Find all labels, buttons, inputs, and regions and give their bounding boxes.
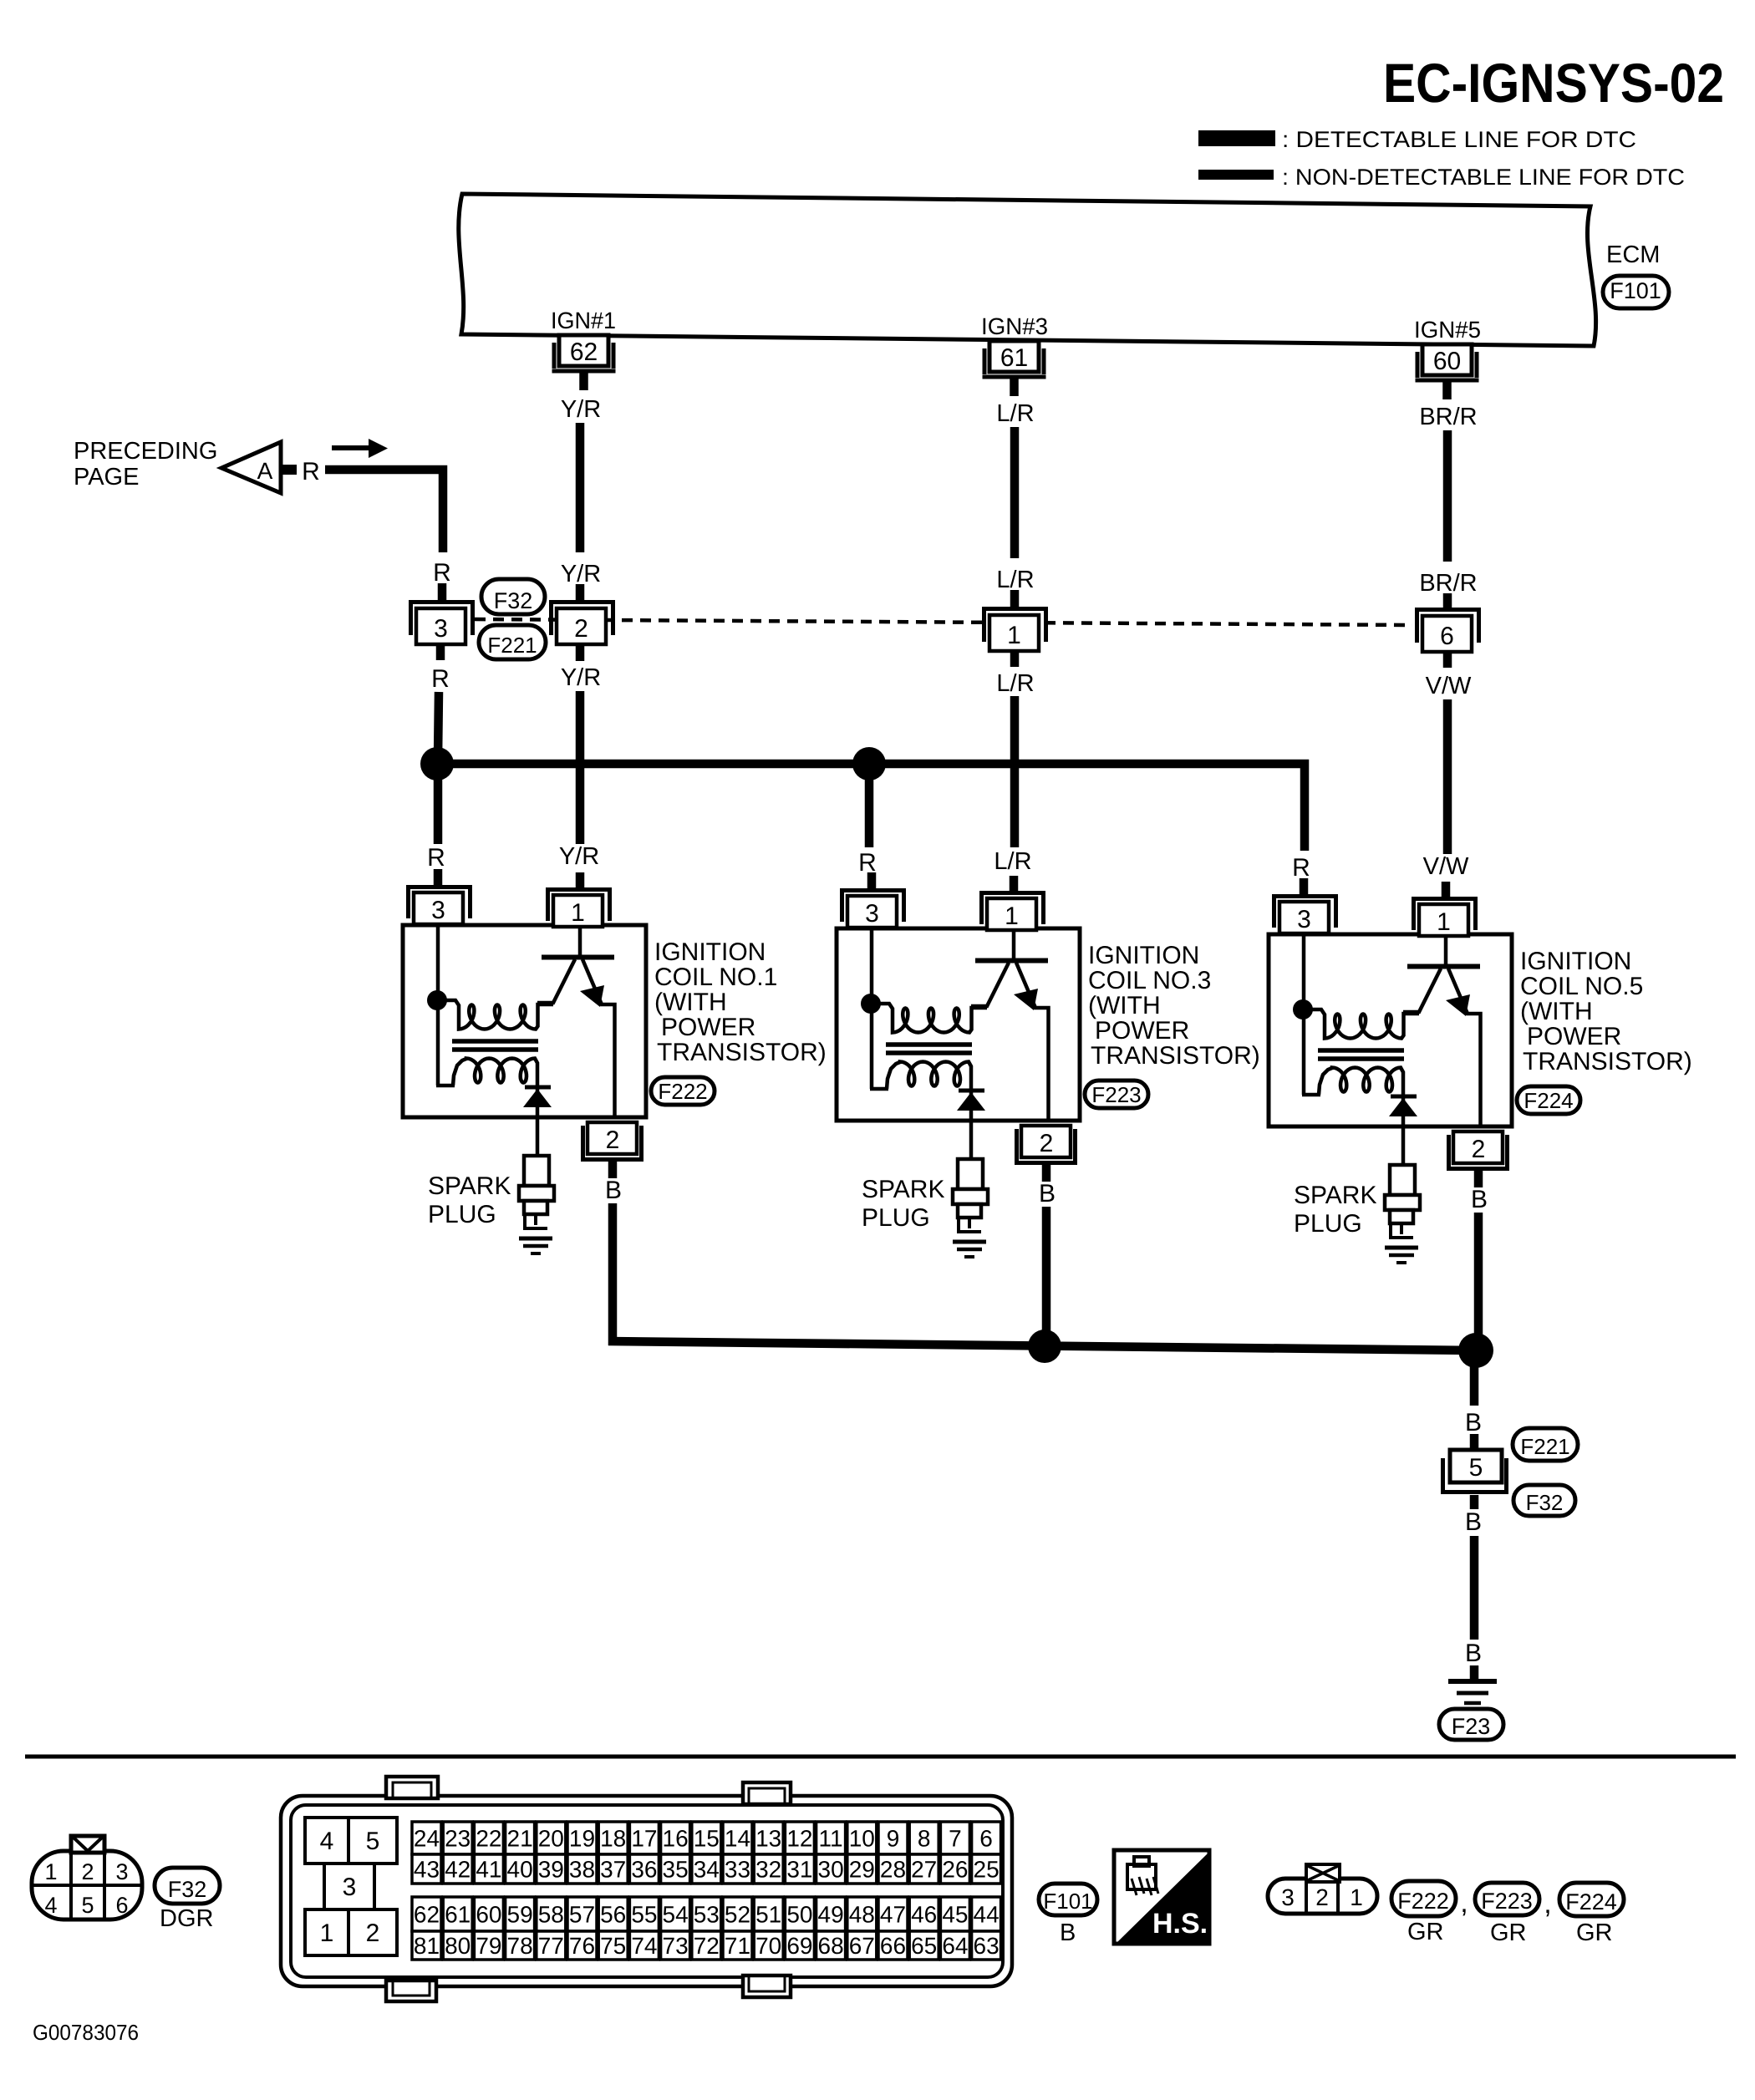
svg-text:2: 2 — [366, 1919, 380, 1947]
wire label Y/R — [561, 396, 601, 423]
Y/R wire ECM pin62 to pin2: upper segment — [576, 423, 585, 552]
svg-text:F32: F32 — [168, 1877, 207, 1902]
ECM connector pin grid row 81-63 — [412, 1931, 1001, 1960]
svg-text:61: 61 — [445, 1902, 471, 1928]
svg-text:IGN#1: IGN#1 — [551, 308, 616, 333]
H.S. harness side icon — [1114, 1850, 1209, 1944]
wire B long segment — [1470, 1536, 1479, 1640]
svg-text:8: 8 — [918, 1826, 931, 1852]
svg-text:R: R — [433, 559, 451, 587]
svg-text:15: 15 — [694, 1826, 720, 1852]
wire R down to junction — [438, 692, 439, 759]
svg-text:F32: F32 — [494, 588, 533, 613]
svg-text:56: 56 — [600, 1902, 626, 1928]
svg-text:47: 47 — [880, 1902, 906, 1928]
color GR 3 — [1576, 1919, 1613, 1946]
wire label R above coil2 pin3 — [858, 849, 877, 877]
ECM pin 60 IGN#5 — [1414, 317, 1481, 399]
svg-text:1: 1 — [320, 1919, 334, 1947]
svg-text:20: 20 — [538, 1826, 564, 1852]
svg-text:10: 10 — [849, 1826, 875, 1852]
svg-text:35: 35 — [663, 1857, 689, 1883]
wire label B — [1465, 1409, 1482, 1436]
svg-text:65: 65 — [911, 1933, 937, 1959]
svg-text:IGN#5: IGN#5 — [1414, 317, 1481, 343]
ECM connector view outline — [281, 1796, 1012, 1986]
svg-text:3: 3 — [115, 1859, 128, 1884]
svg-text:38: 38 — [569, 1857, 595, 1883]
svg-text:51: 51 — [755, 1902, 781, 1928]
svg-text:61: 61 — [1000, 344, 1028, 372]
svg-text:34: 34 — [694, 1857, 720, 1883]
preceding page reference A — [74, 438, 320, 493]
svg-text:52: 52 — [725, 1902, 750, 1928]
svg-text:F101: F101 — [1610, 278, 1661, 303]
svg-text:21: 21 — [507, 1826, 533, 1852]
arrow to right — [332, 439, 388, 458]
wire label L/R below pin1 — [996, 670, 1034, 697]
connector F221 oval — [1513, 1428, 1578, 1461]
svg-text:63: 63 — [974, 1933, 1000, 1959]
connector F221 oval — [479, 625, 546, 659]
svg-text:31: 31 — [786, 1857, 812, 1883]
svg-text:EC-IGNSYS-02: EC-IGNSYS-02 — [1383, 52, 1724, 114]
svg-text:GR: GR — [1490, 1919, 1527, 1946]
legend non-detectable line sample — [1198, 170, 1274, 180]
stub below pin 6 — [1443, 652, 1452, 668]
svg-text:B: B — [1465, 1508, 1482, 1536]
svg-text:BR/R: BR/R — [1419, 570, 1477, 597]
connector F223 label — [1475, 1883, 1539, 1915]
wire label Y/R below pin2 — [561, 664, 601, 691]
connector face 3 2 1 — [1268, 1864, 1377, 1914]
dashed link line between connectors — [475, 619, 1412, 625]
svg-text:B: B — [1465, 1640, 1482, 1667]
connector F32 oval lower — [1513, 1485, 1575, 1516]
wire B coil2 pin2 to bus — [1042, 1207, 1051, 1348]
ground connector F23 oval — [1439, 1709, 1503, 1740]
svg-text:70: 70 — [755, 1933, 781, 1959]
svg-text:2: 2 — [574, 615, 588, 643]
junction dot C — [1028, 1330, 1061, 1363]
wire label V/W below pin6 — [1426, 673, 1472, 699]
svg-text:30: 30 — [818, 1857, 844, 1883]
svg-text:R: R — [427, 844, 445, 872]
svg-text:3: 3 — [434, 615, 448, 643]
svg-text:L/R: L/R — [996, 400, 1034, 427]
svg-text:59: 59 — [507, 1902, 533, 1928]
wire label V/W above coil3 pin1 — [1423, 853, 1469, 880]
svg-text:13: 13 — [755, 1826, 781, 1852]
svg-text:L/R: L/R — [994, 848, 1031, 875]
svg-text:V/W: V/W — [1426, 673, 1472, 699]
legend detectable text — [1282, 127, 1636, 152]
ECM pin 62 IGN#1 — [551, 308, 616, 390]
wire B coil1 pin2 to bus — [608, 1203, 618, 1345]
svg-text:81: 81 — [414, 1933, 440, 1959]
svg-text:F221: F221 — [487, 633, 537, 658]
color DGR — [160, 1905, 213, 1932]
svg-text:26: 26 — [942, 1857, 968, 1883]
svg-text:11: 11 — [819, 1826, 843, 1852]
svg-text:2: 2 — [81, 1859, 94, 1884]
stub above pin 5 — [1470, 1434, 1479, 1451]
connector F32 label — [155, 1868, 220, 1904]
svg-text:19: 19 — [569, 1826, 595, 1852]
svg-text:49: 49 — [818, 1902, 844, 1928]
wire label BR/R — [1419, 404, 1477, 430]
junction dot B — [852, 747, 886, 781]
svg-text:F222: F222 — [1397, 1889, 1449, 1914]
svg-text:COIL NO.1: COIL NO.1 — [654, 964, 777, 991]
connector F221/F32 pin 5 — [1441, 1450, 1508, 1492]
ECM connector pin grid row 62-44 — [412, 1897, 1001, 1931]
svg-text:40: 40 — [507, 1857, 533, 1883]
svg-text:62: 62 — [570, 338, 598, 366]
svg-text:17: 17 — [631, 1826, 657, 1852]
svg-text:23: 23 — [445, 1826, 471, 1852]
stub below pin 2 — [576, 644, 585, 661]
svg-text:72: 72 — [694, 1933, 720, 1959]
svg-text:22: 22 — [476, 1826, 501, 1852]
svg-text:2: 2 — [1315, 1884, 1329, 1910]
wire label L/R above coil2 pin1 — [994, 848, 1031, 875]
ECM connector label F101 — [1603, 276, 1669, 308]
svg-text:5: 5 — [1469, 1454, 1483, 1482]
svg-text:69: 69 — [786, 1933, 812, 1959]
svg-text:28: 28 — [880, 1857, 906, 1883]
wire label BR/R above pin6 — [1419, 570, 1477, 597]
svg-text:24: 24 — [414, 1826, 440, 1852]
stub above pin 3 — [438, 583, 447, 601]
wire R from preceding page — [325, 470, 443, 552]
svg-text:DGR: DGR — [160, 1905, 213, 1932]
svg-text:71: 71 — [725, 1933, 750, 1959]
svg-text:F23: F23 — [1452, 1714, 1491, 1739]
svg-text:6: 6 — [1440, 623, 1454, 650]
svg-text:68: 68 — [818, 1933, 844, 1959]
color GR 1 — [1407, 1919, 1444, 1945]
svg-text:42: 42 — [445, 1857, 471, 1883]
wire V/W down to coil3 pin1 — [1443, 699, 1452, 854]
connector face F32 (6 pin) — [32, 1836, 142, 1919]
svg-text:48: 48 — [849, 1902, 875, 1928]
svg-text:41: 41 — [476, 1857, 501, 1883]
svg-text:F224: F224 — [1524, 1088, 1573, 1113]
comma — [1460, 1887, 1468, 1919]
ECM block — [459, 194, 1596, 346]
svg-text:F222: F222 — [658, 1079, 707, 1104]
svg-text:64: 64 — [942, 1933, 968, 1959]
stub above pin 6 — [1443, 593, 1452, 608]
legend non-detectable text — [1282, 165, 1685, 190]
color GR 2 — [1490, 1919, 1527, 1946]
stub below pin 5 — [1470, 1495, 1479, 1509]
svg-text:37: 37 — [600, 1857, 626, 1883]
stub above pin 1 — [1010, 590, 1020, 608]
svg-text:R: R — [302, 458, 320, 486]
svg-text:PAGE: PAGE — [74, 464, 139, 491]
connector F32/F221 pin 3 — [409, 600, 475, 644]
connector F32/F221 pin 1 — [982, 607, 1048, 651]
svg-text:A: A — [257, 458, 273, 484]
svg-text:F224: F224 — [1565, 1889, 1617, 1914]
svg-text:78: 78 — [507, 1933, 533, 1959]
svg-text:14: 14 — [725, 1826, 750, 1852]
svg-text:75: 75 — [600, 1933, 626, 1959]
wire label B — [1465, 1508, 1482, 1536]
svg-text:50: 50 — [786, 1902, 812, 1928]
ground bus wire B — [608, 1341, 1476, 1350]
connector bottom tab 2 — [743, 1975, 791, 1997]
svg-text:60: 60 — [476, 1902, 501, 1928]
svg-text:: DETECTABLE LINE FOR DTC: : DETECTABLE LINE FOR DTC — [1282, 127, 1636, 152]
svg-text:27: 27 — [911, 1857, 937, 1883]
wire A down to coil1 pin3 — [434, 764, 443, 844]
svg-text:67: 67 — [849, 1933, 875, 1959]
svg-text:BR/R: BR/R — [1419, 404, 1477, 430]
wire L/R down to coil2 pin1 — [1010, 696, 1020, 847]
svg-text:Y/R: Y/R — [559, 843, 599, 870]
wire label R above coil1 pin3 — [427, 844, 445, 872]
svg-text:F221: F221 — [1520, 1434, 1569, 1459]
wire label L/R — [996, 400, 1034, 427]
connector F32/F221 pin 2 — [549, 600, 615, 644]
svg-text:,: , — [1544, 1888, 1551, 1919]
color B — [1060, 1919, 1076, 1946]
svg-text:IGN#3: IGN#3 — [981, 313, 1048, 339]
svg-text:46: 46 — [911, 1902, 937, 1928]
svg-text:6: 6 — [115, 1893, 128, 1918]
svg-text:R: R — [431, 665, 450, 693]
document number — [33, 2020, 139, 2045]
svg-text:53: 53 — [694, 1902, 720, 1928]
comma — [1544, 1888, 1551, 1919]
svg-text:3: 3 — [343, 1874, 357, 1901]
ECM connector pin grid row 43-25 — [412, 1854, 1001, 1884]
connector top tab 1 — [386, 1777, 438, 1798]
connector top tab 2 — [743, 1782, 791, 1804]
svg-text:F32: F32 — [1526, 1490, 1564, 1515]
ignition coil no.5 with power transistor F224 — [1269, 878, 1692, 1263]
svg-text:44: 44 — [974, 1902, 1000, 1928]
wire label Y/R above pin2 — [561, 561, 601, 587]
svg-text:9: 9 — [887, 1826, 900, 1852]
svg-text:33: 33 — [725, 1857, 750, 1883]
stub above pin 2 — [576, 584, 585, 601]
ignition coil no.3 with power transistor F223 — [837, 872, 1260, 1257]
connector bottom tab 1 — [386, 1981, 436, 2001]
svg-text:76: 76 — [569, 1933, 595, 1959]
ECM pin 61 IGN#3 — [981, 313, 1048, 396]
wire label R below pin3 — [431, 665, 450, 693]
svg-text:77: 77 — [538, 1933, 564, 1959]
svg-text:66: 66 — [880, 1933, 906, 1959]
svg-text:F223: F223 — [1091, 1082, 1141, 1107]
svg-text:L/R: L/R — [996, 567, 1034, 593]
connector F222 label — [1391, 1881, 1456, 1916]
svg-text:18: 18 — [600, 1826, 626, 1852]
svg-text:GR: GR — [1576, 1919, 1613, 1946]
svg-text:73: 73 — [663, 1933, 689, 1959]
svg-text:COIL NO.3: COIL NO.3 — [1088, 967, 1211, 994]
svg-text:80: 80 — [445, 1933, 471, 1959]
L/R wire ECM pin61 to pin1: upper segment — [1010, 427, 1020, 558]
svg-text:V/W: V/W — [1423, 853, 1469, 880]
svg-text:57: 57 — [569, 1902, 595, 1928]
ground symbol — [1448, 1681, 1497, 1703]
svg-text:32: 32 — [755, 1857, 781, 1883]
junction dot A — [420, 747, 454, 781]
ignition coil no.1 with power transistor F222 — [403, 869, 827, 1253]
svg-text:F223: F223 — [1481, 1889, 1533, 1914]
bus wire R to all coil pin3 — [437, 764, 1305, 851]
svg-text:55: 55 — [631, 1902, 657, 1928]
svg-text:4: 4 — [44, 1893, 57, 1918]
connector F32 oval — [481, 579, 545, 614]
svg-text:39: 39 — [538, 1857, 564, 1883]
stub below pin 1 — [1010, 651, 1020, 667]
svg-text:3: 3 — [1281, 1884, 1295, 1910]
svg-text:B: B — [1465, 1409, 1482, 1436]
svg-text:5: 5 — [366, 1828, 380, 1855]
wire label B — [1465, 1640, 1482, 1667]
svg-text:H.S.: H.S. — [1152, 1908, 1208, 1940]
svg-text:Y/R: Y/R — [561, 664, 601, 691]
svg-text:54: 54 — [663, 1902, 689, 1928]
wire label L/R above pin1 — [996, 567, 1034, 593]
svg-text:58: 58 — [538, 1902, 564, 1928]
connector F224 label — [1559, 1883, 1624, 1916]
svg-text:4: 4 — [320, 1828, 334, 1855]
svg-text:,: , — [1460, 1887, 1468, 1919]
svg-text:62: 62 — [414, 1902, 440, 1928]
svg-text:29: 29 — [849, 1857, 875, 1883]
wire label R above pin3 — [433, 559, 451, 587]
ECM connector pin grid row 24-6 — [412, 1822, 1001, 1854]
svg-text:16: 16 — [663, 1826, 689, 1852]
connector F101 label — [1039, 1884, 1097, 1915]
svg-text:ECM: ECM — [1606, 242, 1660, 268]
svg-text:7: 7 — [949, 1826, 962, 1852]
svg-text:25: 25 — [974, 1857, 1000, 1883]
stub above ground — [1470, 1665, 1479, 1680]
svg-text:Y/R: Y/R — [561, 396, 601, 423]
svg-text:L/R: L/R — [996, 670, 1034, 697]
svg-text:F101: F101 — [1043, 1889, 1092, 1914]
svg-text:12: 12 — [786, 1826, 812, 1852]
BR/R wire ECM pin60 to pin6: upper segment — [1443, 430, 1452, 562]
legend detectable line sample — [1198, 130, 1275, 146]
svg-text:6: 6 — [979, 1826, 993, 1852]
svg-text:74: 74 — [631, 1933, 657, 1959]
wire B coil3 pin2 to bus — [1474, 1213, 1483, 1352]
svg-text:1: 1 — [1007, 622, 1021, 649]
svg-text:5: 5 — [81, 1893, 94, 1918]
svg-text:B: B — [1060, 1919, 1076, 1946]
svg-text:PRECEDING: PRECEDING — [74, 438, 217, 465]
svg-text:43: 43 — [414, 1857, 440, 1883]
svg-text:45: 45 — [942, 1902, 968, 1928]
svg-text:: NON-DETECTABLE LINE FOR DTC: : NON-DETECTABLE LINE FOR DTC — [1282, 165, 1685, 190]
wire B below junction — [1470, 1360, 1479, 1406]
svg-text:G00783076: G00783076 — [33, 2020, 139, 2045]
wire Y/R down to coil1 pin1 — [576, 691, 585, 844]
stub below pin 3 — [436, 644, 445, 660]
svg-text:1: 1 — [1350, 1884, 1363, 1910]
svg-text:60: 60 — [1433, 348, 1461, 375]
svg-text:1: 1 — [44, 1859, 57, 1884]
junction dot D — [1458, 1333, 1493, 1368]
svg-text:36: 36 — [631, 1857, 657, 1883]
connector F32/F221 pin 6 — [1415, 608, 1481, 652]
wire B down to coil2 pin3 — [865, 764, 874, 847]
svg-text:Y/R: Y/R — [561, 561, 601, 587]
svg-text:R: R — [1292, 854, 1310, 882]
ECM connector key pins 4 5 3 1 2 — [305, 1818, 397, 1955]
wire label R above coil3 pin3 — [1292, 854, 1310, 882]
separator line — [25, 1755, 1736, 1759]
svg-text:GR: GR — [1407, 1919, 1444, 1945]
ECM label — [1606, 242, 1660, 268]
svg-text:79: 79 — [476, 1933, 501, 1959]
svg-text:COIL NO.5: COIL NO.5 — [1520, 973, 1643, 1000]
wire label Y/R above coil1 pin1 — [559, 843, 599, 870]
